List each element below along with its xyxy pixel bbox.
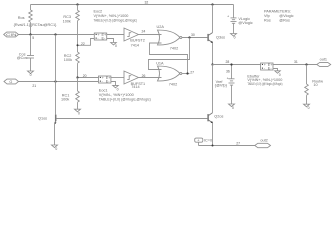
wire Eoc1 output to BUFST1 — [111, 77, 124, 79]
svg-text:0: 0 — [234, 36, 236, 40]
node junction net22 / RC rail — [77, 44, 79, 46]
svg-text:100k: 100k — [61, 97, 69, 101]
wire Eoc1 output minus to ground — [111, 82, 116, 86]
parameters block — [264, 9, 294, 22]
svg-text:0: 0 — [55, 147, 57, 151]
svg-text:22: 22 — [81, 42, 85, 46]
svg-text:TABLE(+(0,0) (@Vlogic,@Vlogic): TABLE(+(0,0) (@Vlogic,@Vlogic) — [94, 19, 138, 23]
ground 0 at Eoc1 output — [113, 85, 119, 91]
wire Ebuffer minus output to ground — [273, 69, 278, 71]
node junction top rail / Q3os collector — [211, 3, 213, 5]
resistor RC1 — [76, 78, 80, 110]
svg-text:0: 0 — [232, 106, 234, 110]
svg-text:32: 32 — [145, 0, 149, 4]
node junction net 28 — [211, 63, 213, 65]
wire net 24 BUFST2 out to U2A input — [139, 34, 162, 36]
svg-text:out2: out2 — [260, 139, 267, 143]
transistor Q2os — [208, 65, 213, 146]
svg-text:27: 27 — [190, 71, 194, 75]
ground 0 below Routw — [304, 104, 310, 110]
nor gate U1A 7402 — [158, 66, 182, 81]
node junction net 28 / Vref — [230, 63, 232, 65]
svg-text:BUFST2: BUFST2 — [130, 38, 145, 42]
E source Ebuffer — [261, 63, 274, 71]
ground 0 below Vref — [229, 104, 235, 110]
svg-text:7402: 7402 — [170, 47, 178, 51]
svg-text:VLogic: VLogic — [238, 17, 250, 21]
svg-text:20: 20 — [83, 74, 87, 78]
wire net 21 from connector to Eoc1 minus input — [19, 81, 99, 83]
wire net 30 U2A output to Q3os base — [182, 37, 208, 39]
E source Eoc2 — [94, 33, 107, 41]
voltage source Vref — [227, 65, 235, 105]
wire net 22 Eoc2 -input — [78, 39, 95, 46]
ground 0 below Cos — [28, 71, 34, 77]
svg-text:5: 5 — [32, 36, 34, 40]
svg-text:7402: 7402 — [169, 83, 177, 87]
svg-text:@Ros: @Ros — [279, 18, 290, 22]
voltage source VLogic — [227, 5, 237, 34]
E source Eoc1 — [99, 76, 112, 84]
node junction net 20 / RC rail — [76, 76, 78, 78]
node junction CIN wire / Ros-Cos rail — [29, 33, 31, 35]
svg-text:0: 0 — [117, 88, 119, 92]
svg-text:36: 36 — [226, 69, 230, 73]
wire feedback U1A out to U2A bottom input — [150, 43, 188, 74]
svg-text:{@Vfp}: {@Vfp} — [215, 84, 228, 88]
svg-text:Eoc1: Eoc1 — [99, 89, 108, 93]
svg-text:U2A: U2A — [157, 25, 165, 29]
svg-text:Q1os: Q1os — [38, 116, 47, 120]
node junction top rail / RC2 rail — [76, 3, 78, 5]
transistor Q3os — [208, 5, 213, 65]
wire RC rail from top rail down — [77, 5, 79, 11]
svg-text:10: 10 — [313, 83, 317, 87]
svg-text:PARAMETERS:: PARAMETERS: — [264, 9, 291, 13]
ground 0 below RC1 — [75, 109, 81, 115]
wire net 5 from CIN to Eoc2 +input — [19, 34, 95, 36]
off-page connector left (Eoc1 minus input) — [4, 79, 19, 84]
svg-text:27: 27 — [236, 141, 240, 145]
svg-text:{Rval/1.1}: {Rval/1.1} — [14, 23, 31, 27]
wire net 20 rail to Eoc1 +input — [78, 77, 99, 79]
svg-text:TABLE(+(0,0) (@Vlogic,@Vlogic): TABLE(+(0,0) (@Vlogic,@Vlogic) — [99, 97, 152, 101]
svg-text:TABLE=(0,0) (@Vlogic,@Vlogic): TABLE=(0,0) (@Vlogic,@Vlogic) — [247, 82, 282, 86]
resistor Ros — [29, 5, 33, 35]
svg-text:0: 0 — [78, 112, 80, 116]
svg-text:U1A: U1A — [156, 62, 164, 66]
svg-text:out1: out1 — [320, 58, 327, 62]
nor gate U2A 7402 — [158, 30, 182, 45]
svg-text:V(%IN+, %IN-)*1000: V(%IN+, %IN-)*1000 — [94, 14, 129, 18]
resistor Routw — [305, 65, 309, 105]
svg-text:0: 0 — [30, 73, 32, 77]
node junction U1A output / feedback — [186, 72, 188, 74]
node junction U2A output / feedback — [188, 36, 190, 38]
ground 0 at Eoc2 output — [111, 43, 117, 49]
svg-text:Eoc2: Eoc2 — [94, 10, 103, 14]
wire feedback U2A out to U1A top input — [149, 38, 190, 70]
initial condition flag IC=0 — [195, 138, 203, 145]
off-page connector out2 — [255, 143, 271, 147]
svg-text:21: 21 — [32, 84, 36, 88]
off-page connector CIN — [4, 32, 19, 37]
svg-text:IC=0: IC=0 — [204, 139, 212, 143]
wire net 26 BUFST1 out to U1A input — [139, 77, 162, 79]
svg-text:{RCTau@RC1}: {RCTau@RC1} — [31, 23, 57, 27]
svg-text:CIN: CIN — [6, 33, 17, 37]
wire Eoc2 output to BUFST2 — [107, 34, 124, 36]
ground 0 below Q1os emitter — [52, 145, 58, 151]
svg-text:G: G — [9, 80, 12, 84]
svg-text:0: 0 — [279, 73, 281, 77]
svg-text:RC3: RC3 — [63, 15, 71, 19]
svg-text:7414: 7414 — [131, 43, 139, 47]
schmitt buffer BUFST2 — [124, 28, 139, 41]
svg-text:0: 0 — [115, 44, 117, 48]
svg-text:Q2os: Q2os — [214, 114, 223, 118]
svg-text:24: 24 — [142, 30, 146, 34]
svg-text:@Cos: @Cos — [17, 56, 28, 60]
wire net 27 to out2 — [199, 145, 255, 147]
schmitt buffer BUFST1 — [124, 71, 139, 84]
svg-text:31: 31 — [294, 60, 298, 64]
ground 0 below VLogic — [231, 34, 237, 40]
transistor Q1os — [54, 115, 207, 145]
svg-text:100k: 100k — [64, 58, 72, 62]
svg-text:7414: 7414 — [131, 85, 139, 89]
wire top rail net 32 — [31, 4, 234, 6]
svg-text:@Vlogic: @Vlogic — [279, 14, 293, 18]
wire net 31 Ebuffer output to out1 — [273, 64, 317, 66]
wire net 28 to Ebuffer input — [213, 64, 261, 66]
svg-text:30: 30 — [191, 33, 195, 37]
svg-text:@Vlogic: @Vlogic — [238, 21, 252, 25]
ground 0 at Ebuffer output — [275, 71, 281, 77]
node junction net 21 / left rail — [54, 80, 56, 82]
resistor RC3 — [76, 10, 80, 52]
capacitor Cos — [27, 35, 34, 72]
svg-text:100k: 100k — [63, 19, 71, 23]
svg-text:0: 0 — [308, 106, 310, 110]
svg-text:Q3os: Q3os — [216, 35, 225, 39]
wire left rail CIN to Q1os — [55, 35, 57, 115]
svg-text:26: 26 — [142, 74, 146, 78]
node junction Q2os emitter / out2 wire — [212, 145, 214, 147]
node junction out1 / Routw — [305, 63, 307, 65]
svg-text:Vfp: Vfp — [264, 14, 270, 18]
svg-text:Ros: Ros — [18, 16, 25, 20]
wire net 27 U1A output — [182, 73, 190, 75]
svg-text:Ros: Ros — [264, 18, 271, 22]
node junction CIN wire / left rail — [54, 33, 56, 35]
resistor RC2 — [76, 52, 80, 78]
wire Eoc2 output minus to ground — [107, 39, 114, 43]
svg-text:28: 28 — [226, 60, 230, 64]
off-page connector out1 — [317, 62, 331, 66]
